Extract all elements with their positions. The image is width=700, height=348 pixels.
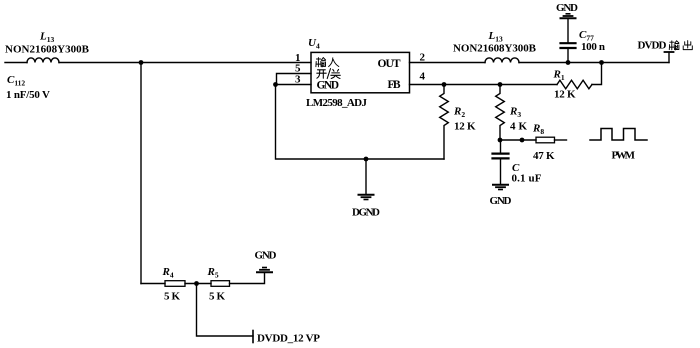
wire ground routing bbox=[276, 85, 445, 160]
label GND bottom bbox=[255, 250, 277, 262]
svg-text:DGND: DGND bbox=[352, 207, 380, 219]
ground GND top bbox=[561, 14, 576, 18]
svg-text:NON21608Y300B: NON21608Y300B bbox=[5, 44, 90, 56]
junction R8 bbox=[520, 138, 525, 143]
pin 4 label bbox=[420, 71, 426, 83]
junction R2 bbox=[442, 82, 447, 87]
resistor R2 bbox=[440, 85, 449, 160]
svg-text:FB: FB bbox=[388, 79, 401, 91]
pin name 输入 bbox=[316, 58, 339, 67]
svg-text:4 K: 4 K bbox=[510, 121, 527, 133]
capacitor C bbox=[493, 140, 509, 184]
svg-text:47 K: 47 K bbox=[533, 150, 555, 162]
svg-text:PWM: PWM bbox=[612, 150, 636, 162]
PWM waveform bbox=[590, 129, 647, 141]
junction R3/C node bbox=[498, 138, 503, 143]
ground DGND bbox=[359, 195, 374, 200]
wire node to R8 bbox=[500, 139, 536, 141]
label PWM bbox=[612, 150, 636, 162]
label R1 bbox=[553, 69, 565, 82]
wire input to U4 bbox=[59, 62, 311, 64]
wire R8 stub bbox=[555, 139, 567, 141]
label L13 right bbox=[488, 30, 503, 43]
pin 3 label bbox=[295, 74, 301, 86]
label DGND bbox=[352, 207, 380, 219]
label R3 bbox=[509, 106, 521, 119]
svg-text:GND: GND bbox=[490, 195, 512, 207]
wire DGND stem bbox=[365, 159, 367, 194]
inductor L13 (input) bbox=[27, 58, 59, 63]
wire R4 to junction bbox=[185, 283, 211, 285]
inductor L13 (output) bbox=[485, 58, 519, 63]
label 0.1 uF bbox=[512, 173, 542, 185]
resistor R3 bbox=[496, 85, 505, 141]
label L13 left bbox=[39, 31, 54, 44]
label GND under C bbox=[490, 195, 512, 207]
pin name GND (inside box) bbox=[317, 80, 340, 92]
label 12 K R1 bbox=[554, 89, 576, 101]
svg-text:DVDD: DVDD bbox=[638, 40, 667, 52]
terminal DVDD_12 VP bbox=[252, 331, 254, 343]
junction pin3/pin5 bbox=[273, 82, 278, 87]
svg-text:0.1 uF: 0.1 uF bbox=[512, 173, 542, 185]
svg-text:12 K: 12 K bbox=[554, 89, 576, 101]
label LM2598_ADJ bbox=[306, 97, 368, 109]
label C bbox=[512, 162, 520, 174]
label U4 bbox=[308, 37, 320, 50]
svg-text:1 nF/50 V: 1 nF/50 V bbox=[6, 89, 50, 101]
pin name FB bbox=[388, 79, 401, 91]
resistor R5 bbox=[211, 281, 230, 287]
svg-text:NON21608Y300B: NON21608Y300B bbox=[453, 43, 537, 55]
label 100 n bbox=[581, 41, 605, 53]
svg-text:LM2598_ADJ: LM2598_ADJ bbox=[306, 97, 368, 109]
label 1 nF/50 V bbox=[6, 89, 50, 101]
svg-text:100 n: 100 n bbox=[581, 41, 605, 53]
pin name OUT bbox=[378, 58, 401, 70]
pin 1 label bbox=[295, 52, 301, 64]
resistor R8 bbox=[536, 137, 555, 143]
ground GND bottom bbox=[257, 268, 272, 273]
pin 2 label bbox=[420, 52, 426, 64]
label 47 K bbox=[533, 150, 555, 162]
label 4 K bbox=[510, 121, 527, 133]
label R2 bbox=[453, 106, 465, 119]
IC U4 box bbox=[311, 52, 410, 92]
wire pin3 bbox=[276, 84, 312, 86]
label 5 K R5 bbox=[209, 291, 225, 303]
label R8 bbox=[532, 123, 544, 136]
wire DVDD_12 bbox=[197, 284, 254, 337]
junction output/R1 bbox=[599, 60, 604, 65]
wire pin5 bbox=[277, 74, 312, 85]
label DVDD_12 VP bbox=[257, 333, 320, 345]
wire pin2 OUT bbox=[410, 62, 486, 64]
label NON21608Y300B right bbox=[453, 43, 537, 55]
svg-text:GND: GND bbox=[556, 2, 578, 14]
svg-text:DVDD_12 VP: DVDD_12 VP bbox=[257, 333, 320, 345]
label R5 bbox=[207, 266, 219, 279]
resistor R4 bbox=[165, 281, 185, 287]
wire FB bbox=[410, 84, 558, 86]
label C77 bbox=[579, 29, 594, 42]
junction input branch bbox=[139, 60, 144, 65]
ground GND under C bbox=[493, 185, 508, 190]
junction DGND bbox=[364, 157, 369, 162]
label 5 K R4 bbox=[164, 291, 180, 303]
junction R3 bbox=[498, 82, 503, 87]
wire R4 row left bbox=[141, 283, 165, 285]
terminal DVDD output bbox=[665, 52, 674, 63]
capacitor C77 bbox=[561, 19, 576, 63]
svg-text:2: 2 bbox=[420, 52, 426, 64]
wire output bbox=[519, 62, 669, 64]
wire input left bbox=[5, 62, 27, 64]
wire input branch down bbox=[140, 63, 142, 284]
resistor R1 bbox=[557, 80, 592, 89]
junction R4/R5 bbox=[194, 281, 199, 286]
label C112 bbox=[7, 74, 25, 87]
label DVDD output bbox=[638, 40, 693, 52]
svg-text:5 K: 5 K bbox=[164, 291, 180, 303]
pin 5 label bbox=[295, 63, 301, 75]
label R4 bbox=[162, 266, 174, 279]
svg-text:GND: GND bbox=[255, 250, 277, 262]
svg-text:OUT: OUT bbox=[378, 58, 401, 70]
svg-text:4: 4 bbox=[420, 71, 426, 83]
label 12 K R2 bbox=[454, 121, 476, 133]
svg-text:12 K: 12 K bbox=[454, 121, 476, 133]
svg-text:GND: GND bbox=[317, 80, 340, 92]
junction C77 bbox=[566, 60, 571, 65]
svg-text:5 K: 5 K bbox=[209, 291, 225, 303]
pin name 开/关 bbox=[317, 69, 341, 79]
wire R1 riser bbox=[592, 63, 602, 85]
label NON21608Y300B left bbox=[5, 44, 90, 56]
svg-text:3: 3 bbox=[295, 74, 301, 86]
wire R5 to GND bbox=[230, 273, 265, 284]
label GND top bbox=[556, 2, 578, 14]
